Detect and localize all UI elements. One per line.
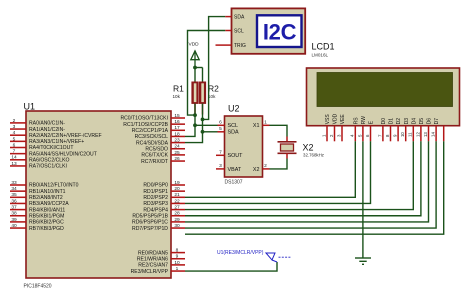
svg-text:RB6/KBI2/PGC: RB6/KBI2/PGC [29, 220, 64, 226]
wire LCD D4 to U1 pin 27 RD4 [185, 141, 413, 209]
U2 pin 5 SDA [218, 131, 225, 133]
svg-text:27: 27 [174, 205, 180, 211]
wire LCD D7 to U1 pin 30 RD7 [185, 141, 436, 228]
svg-text:RA2/AN2/C2IN+/VREF-/CVREF: RA2/AN2/C2IN+/VREF-/CVREF [29, 133, 102, 139]
svg-text:9: 9 [176, 254, 179, 260]
svg-text:26: 26 [174, 156, 180, 162]
junction VDD node [193, 66, 197, 70]
svg-text:2: 2 [264, 163, 267, 169]
svg-text:RB3/AN9/CCP2A: RB3/AN9/CCP2A [29, 201, 69, 207]
U1 pin 36 RB3/AN9/CCP2A [10, 202, 26, 204]
svg-text:14: 14 [11, 155, 17, 161]
R2 bottom pin lead [202, 104, 204, 115]
U1 pin 1 RE3/MCLR/VPP [171, 270, 185, 272]
LCD1 pin 11 D4 [412, 126, 414, 142]
terminal hidden-name dashes [279, 256, 291, 258]
wire R2 top lead [202, 68, 204, 83]
svg-text:RC0/T1OSO/T13CKI: RC0/T1OSO/T13CKI [120, 116, 168, 122]
U1 pin 10 RE2/CS/AN7 [171, 264, 185, 266]
svg-text:RA5/AN4/SS/HLVDIN/C2OUT: RA5/AN4/SS/HLVDIN/C2OUT [29, 151, 97, 157]
terminal U1(RE3/MCLR/VPP) [266, 253, 275, 260]
U1 pin 8 RE0/RD/AN5 [171, 252, 185, 254]
svg-text:34: 34 [11, 186, 17, 192]
LCD1 pin 3 VEE [341, 126, 343, 142]
svg-text:RA4/T0CKI/C1OUT: RA4/T0CKI/C1OUT [29, 145, 73, 151]
U1 pin 18 RC3/SCK/SCL [171, 135, 185, 137]
svg-text:RD0/PSP0: RD0/PSP0 [143, 183, 168, 189]
LCD1 pin 12 D5 [420, 126, 422, 142]
svg-text:28: 28 [174, 211, 180, 217]
U1 pin 14 RA6/OSC2/CLKO [10, 159, 26, 161]
svg-text:SDA: SDA [234, 14, 245, 20]
svg-text:RD7/PSP7/P1D: RD7/PSP7/P1D [132, 226, 168, 232]
svg-text:32.768kHz: 32.768kHz [303, 153, 324, 158]
svg-text:10: 10 [174, 260, 180, 266]
svg-text:RA3/AN3/C1IN+/VREF+: RA3/AN3/C1IN+/VREF+ [29, 139, 84, 145]
U1 pin 39 RB6/KBI2/PGC [10, 221, 26, 223]
svg-text:RC5/SDO: RC5/SDO [145, 146, 168, 152]
LCD1 pin 13 D6 [428, 126, 430, 142]
svg-text:VSS: VSS [325, 114, 331, 125]
R1 bottom pin lead [194, 104, 196, 115]
svg-text:37: 37 [11, 205, 17, 211]
LCD1 pin 10 D3 [405, 126, 407, 142]
svg-text:X2: X2 [303, 143, 314, 153]
svg-text:RC6/TX/CK: RC6/TX/CK [141, 153, 168, 159]
U1 pin 28 RD5/PSP5/P1B [171, 215, 185, 217]
I2C debugger pin SDA [225, 16, 231, 18]
LCD1 pin 9 D2 [397, 126, 399, 142]
wire SDA branch to U2 SDA pin 5 [203, 131, 218, 133]
svg-text:2: 2 [13, 118, 16, 124]
svg-text:VEE: VEE [340, 114, 346, 125]
svg-text:VBAT: VBAT [228, 167, 242, 173]
svg-text:RE0/RD/AN5: RE0/RD/AN5 [138, 250, 168, 256]
U1 pin 24 RC5/SDO [171, 148, 185, 150]
U1 pin 33 RB0/AN12/FLT0/INT0 [10, 184, 26, 186]
svg-text:RB0/AN12/FLT0/INT0: RB0/AN12/FLT0/INT0 [29, 183, 79, 189]
wire SDA net: I2C debugger SDA to R2 lead [203, 17, 226, 120]
wire SDA net: R2 bottom lead down to U1 pin 23 RC4/SDI/SDA [185, 104, 203, 143]
svg-text:RS: RS [353, 117, 359, 125]
svg-text:D5: D5 [419, 118, 425, 125]
U2 pin 6 SCL [218, 124, 225, 126]
svg-text:5: 5 [357, 134, 362, 137]
I2C debugger display window [257, 15, 302, 47]
svg-text:6: 6 [219, 120, 222, 126]
U1 pin 38 RB5/KBI1/PGM [10, 215, 26, 217]
U1 pin 13 RA7/OSC1/CLKI [10, 165, 26, 167]
U1 pin 19 RD0/PSP0 [171, 184, 185, 186]
svg-text:U1: U1 [24, 102, 36, 112]
svg-text:SCL: SCL [234, 28, 244, 34]
U1 pin 9 RE1/WR/AN6 [171, 258, 185, 260]
U2 pin 3 VBAT [216, 168, 225, 170]
U1 pin 5 RA3/AN3/C1IN+/VREF+ [10, 140, 26, 142]
svg-text:7: 7 [219, 150, 222, 156]
svg-text:R1: R1 [173, 84, 184, 94]
svg-text:D4: D4 [411, 118, 417, 125]
LCD1 pin 6 E [370, 126, 372, 142]
U1 pin 6 RA4/T0CKI/C1OUT [10, 147, 26, 149]
svg-text:SDA: SDA [228, 130, 239, 136]
svg-text:8: 8 [385, 134, 390, 137]
wire SCL net: I2C debugger SCL to R1 lead [188, 31, 226, 116]
U2 pin 1 X1 [263, 124, 270, 126]
crystal X2 32.768kHz [278, 141, 297, 143]
svg-text:RB7/KBI3/PGD: RB7/KBI3/PGD [29, 226, 64, 232]
svg-text:18: 18 [174, 131, 180, 137]
svg-text:4: 4 [350, 134, 355, 137]
U1 pin 25 RC6/TX/CK [171, 154, 185, 156]
resistor R2 10k [199, 82, 206, 104]
U1 pin 40 RB7/KBI3/PGD [10, 227, 26, 229]
svg-text:5: 5 [219, 126, 222, 132]
svg-text:D6: D6 [427, 118, 433, 125]
svg-text:RA6/OSC2/CLKO: RA6/OSC2/CLKO [29, 158, 70, 164]
LCD1 pin 7 D0 [382, 126, 384, 142]
svg-text:VDD: VDD [189, 41, 200, 47]
svg-text:13: 13 [11, 161, 17, 167]
U1 pin 30 RD7/PSP7/P1D [171, 227, 185, 229]
crystal X2 top lead [286, 137, 288, 142]
svg-text:RA0/AN0/C1IN-: RA0/AN0/C1IN- [29, 121, 65, 127]
svg-text:39: 39 [11, 217, 17, 223]
U2 pin 2 X2 [263, 168, 270, 170]
svg-text:3: 3 [219, 163, 222, 169]
svg-text:LCD1: LCD1 [312, 42, 335, 52]
U1 pin 4 RA2/AN2/C2IN+/VREF-/CVREF [10, 134, 26, 136]
svg-text:I2C: I2C [263, 20, 297, 45]
LCD1 pin 1 VSS [326, 126, 328, 142]
svg-text:1: 1 [176, 266, 179, 272]
svg-text:29: 29 [174, 217, 180, 223]
svg-text:TRIG: TRIG [234, 43, 246, 49]
wire SCL net: R1 bottom lead down to U1 pin 18 RC3/SCK/SCL [185, 104, 195, 137]
svg-text:R2: R2 [208, 84, 219, 94]
microcontroller U1 PIC18F4520 body [26, 111, 171, 278]
svg-text:RD1/PSP1: RD1/PSP1 [143, 189, 168, 195]
junction node SDA / I2C feed [201, 118, 205, 122]
U1 pin 16 RC1/T1OSI/CCP2B [171, 123, 185, 125]
svg-text:U2: U2 [228, 104, 240, 114]
I2C debugger pin SCL [225, 30, 231, 32]
svg-text:7: 7 [13, 149, 16, 155]
I2C debugger instrument body [232, 8, 306, 53]
svg-text:14: 14 [431, 132, 436, 137]
svg-text:RC3/SCK/SCL: RC3/SCK/SCL [135, 134, 169, 140]
svg-text:RC2/CCP1/P1A: RC2/CCP1/P1A [132, 128, 169, 134]
wire VDD junction to R2 top [195, 67, 203, 69]
svg-text:RB2/AN8/INT2: RB2/AN8/INT2 [29, 195, 63, 201]
U1 pin 34 RB1/AN10/INT1 [10, 190, 26, 192]
crystal X2 bottom lead [286, 154, 288, 159]
U1 pin 20 RD1/PSP1 [171, 190, 185, 192]
svg-text:25: 25 [174, 150, 180, 156]
svg-text:RC1/T1OSI/CCP2B: RC1/T1OSI/CCP2B [123, 122, 168, 128]
wire U1 pin 1 RE3/MCLR/VPP to terminal [185, 262, 277, 271]
svg-text:D0: D0 [381, 118, 387, 125]
U1 pin 37 RB4/KBI0/AN11 [10, 209, 26, 211]
svg-text:RD6/PSP6/P1C: RD6/PSP6/P1C [132, 220, 168, 226]
svg-text:RW: RW [361, 116, 367, 125]
svg-text:DS1307: DS1307 [225, 180, 243, 186]
svg-text:30: 30 [174, 223, 180, 229]
svg-text:17: 17 [174, 125, 180, 131]
svg-text:RE2/CS/AN7: RE2/CS/AN7 [138, 263, 168, 269]
svg-text:40: 40 [11, 223, 17, 229]
U1 pin 29 RD6/PSP6/P1C [171, 221, 185, 223]
wire LCD RS to U1 pin 21 RD2 [185, 141, 355, 197]
wire LCD D5 to U1 pin 28 RD5 [185, 141, 421, 215]
U1 pin 27 RD4/PSP4 [171, 209, 185, 211]
svg-text:1: 1 [321, 134, 326, 137]
svg-text:3: 3 [13, 124, 16, 130]
svg-text:PIC18F4520: PIC18F4520 [24, 283, 52, 289]
svg-text:13: 13 [423, 132, 428, 137]
svg-text:LM016L: LM016L [312, 53, 329, 58]
svg-text:RB4/KBI0/AN11: RB4/KBI0/AN11 [29, 207, 65, 213]
svg-text:15: 15 [174, 113, 180, 119]
U1 pin 7 RA5/AN4/SS/HLVDIN/C2OUT [10, 153, 26, 155]
svg-text:RB1/AN10/INT1: RB1/AN10/INT1 [29, 189, 66, 195]
svg-text:6: 6 [13, 142, 16, 148]
svg-text:D2: D2 [396, 118, 402, 125]
U1 pin 3 RA1/AN1/C2IN- [10, 128, 26, 130]
LCD LCD1 LM016L body [307, 68, 460, 126]
svg-text:16: 16 [174, 119, 180, 125]
U1 pin 23 RC4/SDI/SDA [171, 142, 185, 144]
LCD1 pin 5 RW [362, 126, 364, 142]
svg-text:RC7/RX/DT: RC7/RX/DT [141, 159, 168, 165]
svg-text:RB5/KBI1/PGM: RB5/KBI1/PGM [29, 213, 64, 219]
svg-text:12: 12 [415, 132, 420, 137]
svg-text:1: 1 [264, 120, 267, 126]
U1 pin 15 RC0/T1OSO/T13CKI [171, 117, 185, 119]
RTC U2 DS1307 body [225, 116, 263, 177]
junction node SDA / U2 branch [201, 130, 205, 134]
U1 pin 35 RB2/AN8/INT2 [10, 196, 26, 198]
svg-text:21: 21 [174, 192, 180, 198]
svg-text:RA1/AN1/C2IN-: RA1/AN1/C2IN- [29, 127, 65, 133]
svg-text:22: 22 [174, 198, 180, 204]
svg-text:5: 5 [13, 136, 16, 142]
svg-text:RE3/MCLR/VPP: RE3/MCLR/VPP [131, 269, 169, 275]
svg-text:D1: D1 [389, 118, 395, 125]
wire U2 X1 to crystal top [270, 125, 288, 136]
svg-text:RA7/OSC1/CLKI: RA7/OSC1/CLKI [29, 164, 67, 170]
wire R1 top lead [194, 68, 196, 83]
U1 pin 22 RD3/PSP3 [171, 202, 185, 204]
junction node SCL / I2C feed [193, 113, 197, 117]
svg-text:X2: X2 [253, 167, 260, 173]
svg-text:35: 35 [11, 192, 17, 198]
svg-text:19: 19 [174, 180, 180, 186]
svg-text:3: 3 [336, 134, 341, 137]
wire crystal bottom to U2 X2 [270, 159, 288, 169]
LCD1 pin 14 D7 [435, 126, 437, 142]
svg-text:33: 33 [11, 180, 17, 186]
svg-text:U1(RE3/MCLR/VPP): U1(RE3/MCLR/VPP) [217, 250, 264, 256]
svg-text:D3: D3 [404, 118, 410, 125]
svg-text:RD3/PSP3: RD3/PSP3 [143, 201, 168, 207]
LCD1 screen [317, 73, 453, 107]
svg-text:VDD: VDD [333, 113, 339, 124]
ground symbol [355, 257, 371, 259]
svg-text:RD5/PSP5/P1B: RD5/PSP5/P1B [132, 213, 168, 219]
svg-text:2: 2 [329, 134, 334, 137]
svg-text:SOUT: SOUT [228, 153, 244, 159]
LCD1 pin 8 D1 [390, 126, 392, 142]
svg-text:SCL: SCL [228, 123, 239, 129]
svg-text:X1: X1 [253, 123, 260, 129]
LCD1 pin 2 VDD [334, 126, 336, 142]
svg-text:10k: 10k [173, 94, 181, 99]
svg-text:6: 6 [365, 134, 370, 137]
svg-text:RD4/PSP4: RD4/PSP4 [143, 207, 168, 213]
I2C debugger pin TRIG [216, 44, 232, 46]
svg-text:4: 4 [13, 130, 16, 136]
svg-text:7: 7 [377, 134, 382, 137]
svg-text:RC4/SDI/SDA: RC4/SDI/SDA [136, 140, 169, 146]
wire extra net stub right of LCD D7 [443, 126, 445, 142]
wire SCL branch to U2 SCL pin 6 [195, 124, 218, 126]
U1 pin 2 RA0/AN0/C1IN- [10, 122, 26, 124]
wire LCD RW down to ground [362, 141, 364, 258]
resistor R1 10k [191, 82, 198, 104]
svg-text:D7: D7 [434, 118, 440, 125]
svg-text:8: 8 [176, 248, 179, 254]
svg-text:10: 10 [400, 132, 405, 137]
U1 pin 26 RC7/RX/DT [171, 160, 185, 162]
svg-text:RE1/WR/AN6: RE1/WR/AN6 [137, 256, 168, 262]
U1 pin 17 RC2/CCP1/P1A [171, 129, 185, 131]
junction node SCL / U2 branch [193, 123, 197, 127]
svg-text:20: 20 [174, 186, 180, 192]
LCD1 pin 4 RS [354, 126, 356, 142]
wire LCD D6 to U1 pin 29 RD6 [185, 141, 429, 222]
svg-text:38: 38 [11, 211, 17, 217]
svg-text:9: 9 [393, 134, 398, 137]
U2 pin 7 SOUT [216, 154, 225, 156]
svg-text:RD2/PSP2: RD2/PSP2 [143, 195, 168, 201]
svg-text:36: 36 [11, 198, 17, 204]
svg-text:11: 11 [408, 132, 413, 137]
wire LCD E to U1 pin 22 RD3 [185, 141, 371, 203]
svg-text:23: 23 [174, 138, 180, 144]
U1 pin 21 RD2/PSP2 [171, 196, 185, 198]
svg-text:24: 24 [174, 144, 180, 150]
